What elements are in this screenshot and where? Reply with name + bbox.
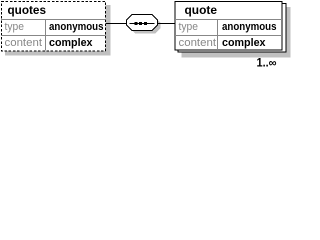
sequence compositor: dot 3 [144, 22, 147, 25]
element quote: back box (repeating) [178, 4, 286, 53]
svg-text:complex: complex [49, 37, 93, 49]
sequence compositor: octagon [127, 15, 158, 31]
element quote: header separator [175, 19, 282, 21]
element quote: row separator [175, 35, 282, 37]
element quotes: box (optional, dashed) [2, 2, 106, 52]
svg-text:type: type [5, 21, 25, 33]
element quote: drop shadow [182, 7, 291, 58]
wire sequence to quote [158, 23, 175, 25]
wire quotes to sequence [106, 23, 127, 25]
svg-text:content: content [179, 37, 217, 49]
svg-text:type: type [179, 21, 199, 33]
element quotes: row separator [1, 35, 106, 37]
element quotes: drop shadow [5, 5, 111, 56]
svg-text:content: content [5, 37, 43, 49]
svg-text:anonymous: anonymous [222, 21, 277, 33]
element quote: front box [175, 2, 282, 51]
element quotes: header separator [1, 19, 106, 21]
sequence compositor: inner line [130, 23, 155, 25]
svg-text:quotes: quotes [8, 3, 47, 17]
element quotes: column separator [45, 20, 47, 51]
svg-text:anonymous: anonymous [49, 21, 104, 33]
svg-text:complex: complex [222, 37, 266, 49]
sequence compositor: dot 1 [135, 22, 138, 25]
sequence compositor: dot 2 [139, 22, 142, 25]
element quote: column separator [217, 20, 219, 51]
sequence compositor: shadow [130, 18, 161, 34]
svg-text:1..∞: 1..∞ [257, 58, 277, 69]
svg-text:quote: quote [185, 3, 218, 17]
